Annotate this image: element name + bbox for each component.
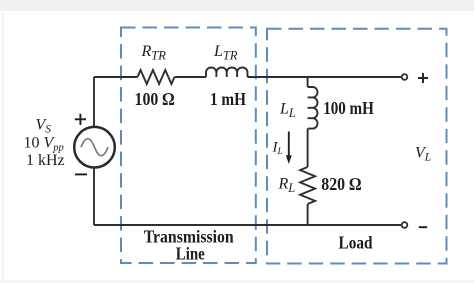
resistor R_L xyxy=(300,167,315,204)
svg-text:Line: Line xyxy=(176,244,205,264)
wire between R_TR and L_TR xyxy=(175,76,207,78)
terminal minus sign xyxy=(419,226,427,228)
source V_S circle xyxy=(74,127,115,168)
source plus sign xyxy=(75,114,86,125)
wire branch bottom xyxy=(307,204,309,225)
wire bottom-left vertical xyxy=(93,168,95,226)
svg-text:LL: LL xyxy=(279,101,296,121)
terminal bottom-right xyxy=(402,222,408,228)
inductor L_L xyxy=(308,87,318,129)
top grey band xyxy=(0,0,474,11)
terminal plus sign xyxy=(418,73,428,83)
wire branch top xyxy=(307,77,309,87)
svg-text:VS: VS xyxy=(36,116,52,135)
svg-text:1 mH: 1 mH xyxy=(210,89,246,109)
wire bottom horizontal xyxy=(94,224,402,226)
load box xyxy=(267,29,447,264)
svg-text:RTR: RTR xyxy=(141,43,167,63)
svg-text:100 mH: 100 mH xyxy=(323,98,374,118)
wire top horizontal segment 2 xyxy=(248,76,402,78)
current arrow I_L xyxy=(286,132,292,165)
bottom faint band xyxy=(0,280,474,283)
left faint edge line xyxy=(2,0,4,283)
svg-text:Load: Load xyxy=(339,233,373,253)
svg-text:10 Vpp: 10 Vpp xyxy=(24,135,64,154)
wire between L_L and R_L xyxy=(307,129,309,167)
wire top horizontal segment 1 xyxy=(94,76,138,78)
svg-text:820 Ω: 820 Ω xyxy=(321,174,361,194)
svg-text:100 Ω: 100 Ω xyxy=(135,89,175,109)
svg-text:LTR: LTR xyxy=(213,43,238,63)
terminal top-right xyxy=(402,74,408,80)
svg-text:VL: VL xyxy=(415,144,431,163)
wire top-left vertical xyxy=(93,77,95,127)
resistor R_TR xyxy=(138,70,175,84)
source sine wave xyxy=(81,139,108,156)
source minus sign xyxy=(75,173,87,175)
transmission line box xyxy=(121,28,256,264)
svg-text:RL: RL xyxy=(278,176,296,196)
inductor L_TR xyxy=(206,68,247,77)
svg-text:1 kHz: 1 kHz xyxy=(26,152,65,169)
svg-text:IL: IL xyxy=(272,140,283,158)
